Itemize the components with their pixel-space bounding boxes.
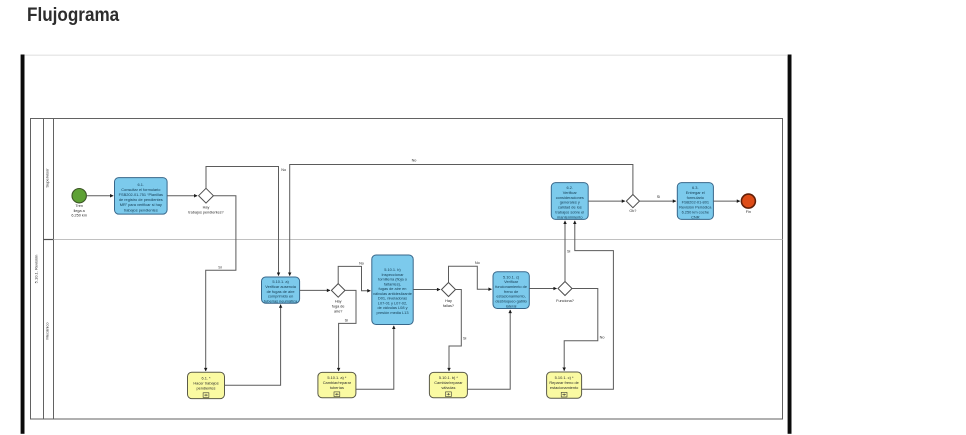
svg-text:Haytrabajos pendientes?: Haytrabajos pendientes?: [188, 206, 223, 215]
lane divider dark segment: [44, 239, 54, 241]
gateway Hay trabajos pendientes?: [188, 188, 223, 214]
start event Tren llega a 6.250 km: [71, 189, 87, 218]
wire Ok? Si to 6.3: [640, 195, 676, 201]
wire start to 6.1: [87, 195, 114, 197]
svg-text:Si: Si: [218, 266, 222, 270]
task 5.10.1.c Verificar freno: [493, 272, 529, 309]
svg-text:Supervisor: Supervisor: [45, 168, 50, 188]
task 6.2 Verificar consideraciones: [551, 183, 588, 220]
wire gateway2 Si to subprocess a*: [339, 290, 356, 371]
svg-text:No: No: [412, 159, 417, 163]
wire subprocess 6.1* back to 5.10.1.a: [225, 305, 281, 386]
task 6.1 Consultar formulario: [115, 178, 168, 215]
svg-text:Trenllega a6.250 km: Trenllega a6.250 km: [71, 204, 87, 217]
svg-text:5.10.1. Revisión: 5.10.1. Revisión: [34, 255, 39, 284]
svg-text:No: No: [475, 261, 480, 265]
svg-text:No: No: [359, 261, 364, 265]
subprocess 6.1* Hacer trabajos pendientes: [188, 372, 225, 398]
wire 5.10.1.c to gateway4: [529, 288, 556, 290]
subprocess 5.10.1.b* Cambiar valvulas: [429, 372, 467, 397]
wire subprocess c* back to 6.2: [575, 221, 614, 389]
gateway Hay fallas?: [442, 283, 456, 308]
wire gateway2 No to 5.10.1.b: [338, 261, 370, 290]
gateway Ok?: [626, 195, 639, 213]
wire Ok? No loop to 5.10.1.a: [290, 159, 633, 276]
svg-text:6.1.Consultar el formularioFSB: 6.1.Consultar el formularioFSB202-01-751…: [119, 182, 163, 213]
svg-text:Hayfuga deaire?: Hayfuga deaire?: [332, 300, 345, 314]
wire gateway1 Si to subprocess 6.1*: [206, 196, 236, 371]
wire gateway3 No to 5.10.1.c: [449, 261, 492, 289]
svg-text:Hayfallas?: Hayfallas?: [443, 299, 454, 308]
end event Fin: [741, 194, 755, 214]
wire 6.2 to gateway Ok?: [588, 200, 625, 202]
wire gateway1 No to 5.10.1.a: [206, 167, 286, 276]
wire 5.10.1.b to gateway3: [413, 289, 440, 291]
gateway Funciona?: [556, 282, 574, 303]
wire 6.1 to gateway1: [167, 195, 197, 197]
svg-text:Si: Si: [657, 195, 661, 199]
wire 6.3 to end: [713, 200, 740, 202]
task 5.10.1.a Verificar fugas aire: [262, 277, 300, 304]
wire gateway4 Si to 6.2: [565, 221, 571, 282]
svg-text:Ok?: Ok?: [629, 209, 636, 213]
svg-text:Si: Si: [345, 319, 349, 323]
lane divider: [54, 239, 783, 241]
wire gateway3 Si to subprocess b*: [449, 290, 467, 372]
task 6.3 Entregar formulario: [677, 183, 713, 220]
page title: [27, 5, 119, 27]
svg-text:Fin: Fin: [746, 210, 751, 214]
panel left black bar: [21, 55, 25, 434]
wire subprocess b* back to 5.10.1.c: [467, 310, 510, 389]
gateway Hay fuga de aire?: [331, 284, 345, 314]
svg-text:Mecánico: Mecánico: [45, 322, 50, 340]
svg-text:Si: Si: [567, 250, 571, 254]
subprocess 5.10.1.c* Reparar freno: [547, 372, 582, 398]
wire 5.10.1.a to gateway2: [300, 289, 330, 291]
svg-text:No: No: [281, 168, 286, 172]
svg-text:Funciona?: Funciona?: [556, 299, 574, 303]
svg-text:No: No: [600, 336, 605, 340]
pool Revision: [31, 119, 783, 420]
subprocess 5.10.1.a* Cambiar tuberias: [318, 372, 356, 397]
panel top border: [25, 55, 788, 57]
wire subprocess a* back to 5.10.1.b: [356, 326, 394, 389]
panel right black bar: [788, 55, 792, 434]
task 5.10.1.b Inspeccionar tornilleria: [372, 255, 413, 325]
svg-text:Si: Si: [463, 337, 467, 341]
wire gateway4 No to subprocess c*: [564, 289, 604, 371]
